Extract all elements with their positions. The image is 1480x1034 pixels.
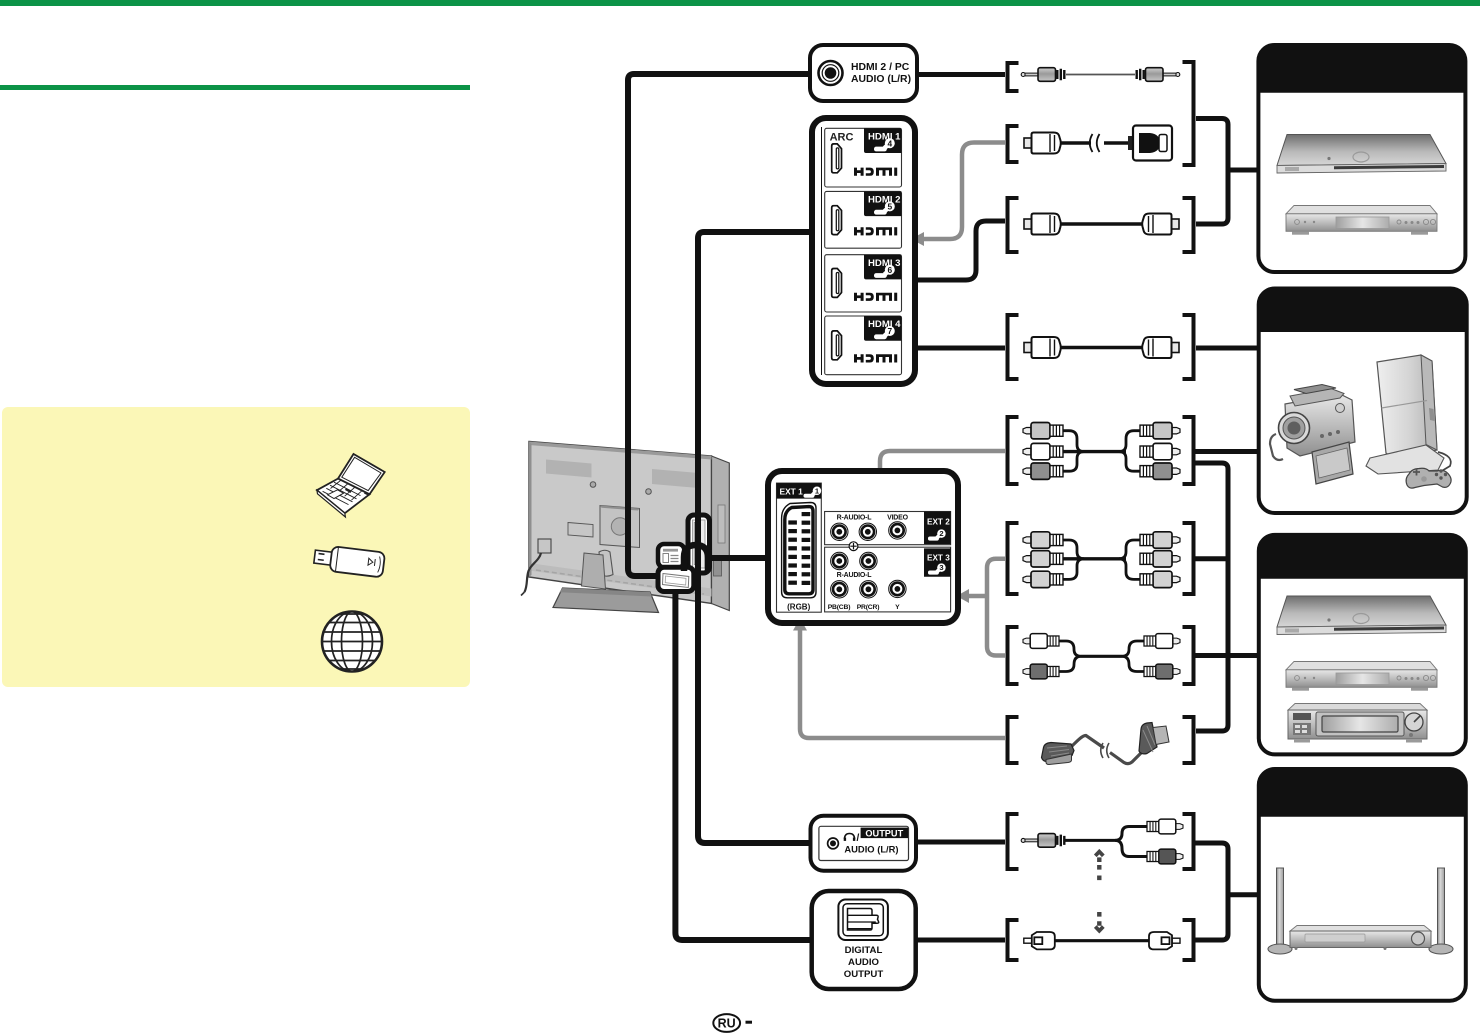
bracket minijack right [1183,814,1194,869]
svg-text:ARC: ARC [830,132,854,144]
green top bar [0,0,1480,6]
HDMI 3 input block [825,255,902,312]
home theater system in box 4 [1268,868,1453,954]
wire AV cable to device box 2 [1194,449,1260,454]
TV rear illustration [521,442,729,613]
bracket component right [1183,523,1194,594]
bracket optical right [1183,920,1194,960]
HDMI 2 input block [825,191,902,248]
bracket cable2 left [1008,126,1019,162]
bracket audio right [1183,627,1194,684]
TV side terminal highlight box [688,515,710,573]
HDMI 4 input block [825,316,902,375]
svg-text:EXT 3: EXT 3 [927,553,950,562]
bracket AV left [1008,417,1019,484]
cable 10: optical digital audio cable [1024,932,1180,949]
device box 2 [1259,289,1467,514]
junction AV/component/scart cables [1194,463,1228,731]
wire DIGITAL box to optical cable bracket [916,938,1005,943]
svg-text:3: 3 [939,563,943,572]
headphone glyph [845,834,855,840]
svg-text:2: 2 [939,529,943,538]
wire HDMI4 to HDMI cable bracket [915,346,1005,351]
TV bottom jacks highlight box [658,567,694,591]
bracket cable3 right [1183,198,1194,252]
wire HDMI panel to TV side terminal and down to OUTPUT box [698,232,812,843]
gray arrow scart cable to EXT1 (RGB) [800,629,1005,738]
bracket optical left [1008,920,1019,960]
controller [1406,468,1451,488]
svg-text:(RGB): (RGB) [787,602,810,611]
wire TV side terminal to EXT panel [706,555,769,561]
vents [546,460,592,478]
left scart plug [1042,743,1075,762]
wire audio cable to device box 3 [1194,653,1260,658]
cable 8: scart adapter cable [1042,723,1170,765]
junction cables 1+2 to device box 1 [1196,119,1228,225]
right scart plug [1139,723,1157,754]
EXT panel [768,471,958,623]
svg-text:PR(CR): PR(CR) [857,604,880,611]
brackets [1008,62,1194,960]
svg-text:RU: RU [718,1017,736,1031]
svg-text:OUTPUT: OUTPUT [844,969,884,980]
svg-text:EXT 2: EXT 2 [927,517,950,526]
bracket minijack left [1008,814,1019,869]
EXT 2 section [825,512,951,545]
svg-text:AUDIO (L/R): AUDIO (L/R) [844,843,898,854]
plus mark [849,542,858,551]
svg-text:EXT 1: EXT 1 [780,486,804,496]
blu-ray player in box 1 [1277,135,1446,174]
playstation console in box 2 [1366,355,1451,488]
device box 1 [1258,45,1465,272]
usb wlan adapter icon [313,544,385,577]
bracket cable1 left [1008,63,1019,91]
junction minijack/optical cables to device box 4 [1194,843,1228,940]
svg-text:VIDEO: VIDEO [887,515,909,522]
device box 4 [1259,769,1466,1001]
bracket AV right [1183,417,1194,484]
EXT 1 scart section [777,483,822,612]
bracket component left [1008,523,1019,594]
svg-text:AUDIO: AUDIO [848,957,879,968]
svg-text:HDMI 4: HDMI 4 [868,319,901,330]
bracket scart left [1008,717,1019,763]
cable 5: composite AV cable [1023,423,1180,480]
TV bottom terminal label box [658,544,684,567]
OUTPUT box [811,816,917,871]
gray arrow HDMI1 cable to HDMI2 input [922,143,1005,240]
bracket cable4 left [1008,315,1019,379]
cable 1: stereo minijack cable [1021,68,1180,82]
scart connector EXT1 [782,503,816,598]
svg-text:R-AUDIO-L: R-AUDIO-L [837,515,873,522]
wire OUTPUT box to minijack cable bracket [916,840,1005,845]
svg-text:4: 4 [887,138,892,148]
gray arrow AV cable to EXT2 [880,451,1005,493]
VESA plate [600,506,640,548]
svg-text:6: 6 [887,265,892,275]
stand neck [582,553,606,589]
optical terminal icon [838,900,888,941]
yellow panel [2,407,470,687]
wire TV bottom jacks to DIGITAL AUDIO OUTPUT box [675,591,812,940]
or-arrows between cable9 and cable10 [1095,852,1103,931]
svg-text:Y: Y [895,604,900,611]
wire HDMI cable to device box 2 [1196,346,1260,351]
laptop icon [317,454,385,517]
svg-text:HDMI 3: HDMI 3 [868,258,901,269]
wire HDMI3 to HDMI cable bracket [915,221,1005,280]
cable 3: HDMI cable (HDMI1) [1024,214,1179,235]
svg-text:HDMI 2: HDMI 2 [868,195,901,206]
svg-text:R-AUDIO-L: R-AUDIO-L [837,572,873,579]
RU mark [713,1014,752,1032]
small hatch rect [568,523,593,538]
svg-text:HDMI 2 / PC: HDMI 2 / PC [851,62,910,73]
svg-text:5: 5 [887,202,892,212]
bracket cables1+2 right [1183,62,1194,165]
device box 3 [1259,535,1466,755]
cable 6: component video cable [1023,532,1180,588]
cable 4: HDMI cable (HDMI4) [1024,337,1179,358]
wire TV to HDMI2/PC audio box [628,74,810,576]
blu-ray player in box 3 [1277,596,1446,635]
svg-text:AUDIO (L/R): AUDIO (L/R) [851,74,911,85]
svg-text:DIGITAL: DIGITAL [845,945,883,956]
TV terminal cable loop [684,545,708,571]
svg-text:PB(CB): PB(CB) [828,604,851,611]
dvd player in box 1 [1286,206,1437,235]
side ports [714,559,722,576]
HDMI 1 input block [825,128,902,187]
DIGITAL AUDIO OUTPUT box [812,891,916,989]
stand base [553,588,659,613]
screws [590,482,596,488]
cable 7: stereo audio RCA cable [1023,634,1180,679]
dvd player in box 3 [1286,662,1437,691]
bracket audio left [1008,627,1019,684]
camcorder in box 2 [1270,385,1355,485]
wire HDMI2/PC box to audio cable bracket [917,72,1005,77]
svg-text:OUTPUT: OUTPUT [865,828,903,838]
gray link component+audio cables and arrow to EXT3 [987,559,1005,656]
vcr in box 3 [1288,704,1427,743]
HDMI panel [812,118,915,384]
HDMI2/PC AUDIO connector box [810,45,917,101]
EXT 3 section [825,547,951,612]
bracket cable4 right [1183,315,1194,379]
svg-text:HDMI 1: HDMI 1 [868,132,901,143]
bracket cable3 left [1008,198,1019,252]
green rule [0,85,470,90]
cable 2: HDMI to DVI cable [1024,126,1172,161]
AC terminal [538,539,551,553]
bracket scart right [1183,717,1194,763]
cable 9: minijack to 2 RCA adapter cable [1021,819,1183,864]
svg-text:7: 7 [887,326,892,336]
cable holders [599,550,613,576]
globe icon [322,612,382,672]
